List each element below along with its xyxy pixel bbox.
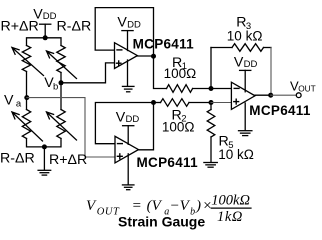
ground (R5)	[204, 137, 217, 167]
node Va	[24, 95, 29, 100]
wire bridge top bracket	[27, 38, 62, 46]
wire R3 down to output node	[270, 48, 272, 96]
power VDD (U3)	[240, 70, 251, 91]
resistor R3 10 kohm	[211, 47, 232, 49]
svg-text:Strain Gauge: Strain Gauge	[118, 214, 205, 230]
resistor R+dR (top-left strain element)	[22, 46, 30, 72]
op-amp U3 (difference amp MCP6411)	[231, 82, 255, 109]
ground (U2)	[122, 154, 134, 190]
svg-text:V: V	[180, 198, 191, 214]
node U2 output / R2 left	[151, 100, 156, 105]
wire output to VOUT terminal	[271, 94, 297, 96]
svg-text:100kΩ: 100kΩ	[211, 192, 250, 208]
svg-text:R-ΔR: R-ΔR	[57, 18, 92, 34]
svg-text:V: V	[234, 54, 244, 70]
svg-text:10 kΩ: 10 kΩ	[227, 28, 263, 43]
svg-text:MCP6411: MCP6411	[137, 155, 199, 170]
wire U1 output down to R1	[154, 56, 167, 88]
wire U2 output up to R2 node	[139, 103, 154, 150]
svg-text:MCP6411: MCP6411	[249, 103, 311, 118]
wire Vb to top buffer + input	[61, 63, 115, 83]
wire left column to Va	[26, 72, 28, 110]
svg-text:DD: DD	[43, 11, 57, 22]
svg-text:V: V	[116, 109, 126, 125]
wire right column through Vb	[60, 73, 62, 110]
resistor R1 100 ohm	[167, 85, 193, 93]
svg-text:OUT: OUT	[97, 207, 120, 218]
svg-text:V: V	[86, 198, 97, 214]
node U1 output	[151, 54, 156, 59]
node non-inverting input junction	[209, 100, 214, 105]
svg-text:V: V	[152, 198, 163, 214]
node inverting input junction	[209, 86, 214, 91]
node bridge-bottom junction	[42, 144, 47, 149]
svg-text:R+ΔR: R+ΔR	[49, 152, 87, 168]
svg-text:−: −	[170, 198, 180, 214]
svg-text:a: a	[16, 99, 22, 110]
svg-text:=: =	[132, 198, 142, 214]
resistor R+dR (bottom-right strain element)	[57, 110, 65, 139]
wire U3 output	[255, 94, 271, 96]
svg-text:b: b	[53, 82, 58, 93]
wire to U3 inverting input	[211, 88, 231, 90]
resistor R-dR (bottom-left strain element)	[22, 110, 30, 139]
node U3 output junction	[268, 93, 273, 98]
wire inverting node up to R3	[210, 48, 212, 89]
wire U1 output	[137, 55, 153, 57]
svg-text:1kΩ: 1kΩ	[217, 209, 243, 225]
power VDD (bridge supply)	[40, 24, 51, 38]
ground (bridge)	[38, 147, 51, 175]
svg-text:): )	[195, 198, 201, 214]
node Vb	[59, 80, 64, 85]
svg-text:MCP6411: MCP6411	[133, 37, 195, 52]
node bridge-top junction	[43, 35, 48, 40]
ground (U3)	[239, 103, 252, 136]
svg-text:R+ΔR: R+ΔR	[1, 18, 39, 34]
svg-text:DD: DD	[127, 20, 141, 31]
svg-text:R-ΔR: R-ΔR	[0, 151, 35, 167]
svg-text:V: V	[4, 92, 14, 108]
svg-text:100Ω: 100Ω	[164, 66, 197, 81]
resistor R2 100 ohm	[154, 102, 161, 104]
svg-text:DD: DD	[244, 59, 258, 70]
wire bridge bottom bracket	[27, 139, 62, 147]
wire to U3 non-inverting input	[211, 102, 231, 104]
svg-text:DD: DD	[126, 114, 140, 125]
resistor R-dR (top-right strain element)	[57, 46, 65, 73]
resistor R5 10 kohm	[210, 103, 212, 110]
wire bottom buffer feedback loop	[95, 103, 153, 144]
wire Va to bottom buffer + input	[27, 98, 115, 157]
terminal VOUT open circle	[296, 93, 301, 98]
power VDD (U2)	[123, 126, 134, 145]
power VDD (U1)	[122, 31, 133, 51]
op-amp U2 (Va buffer MCP6411)	[115, 136, 139, 163]
svg-text:V: V	[117, 15, 127, 31]
wire top buffer feedback loop	[95, 8, 153, 57]
ground (U1)	[122, 60, 134, 92]
op-amp U1 (Vb buffer MCP6411)	[115, 43, 138, 69]
svg-text:100Ω: 100Ω	[162, 120, 195, 135]
svg-text:OUT: OUT	[298, 83, 316, 93]
wire R1 to inverting node	[193, 88, 211, 90]
svg-text:10 kΩ: 10 kΩ	[218, 147, 254, 162]
wire R2 to non-inverting node	[189, 102, 211, 104]
